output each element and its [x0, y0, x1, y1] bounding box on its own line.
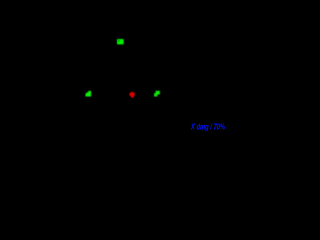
- green sprite left: [86, 91, 92, 97]
- green sprite right: [154, 91, 160, 97]
- red sprite center: [130, 92, 135, 98]
- svg-text:X dmg / 70%: X dmg / 70%: [190, 122, 225, 131]
- green block top center: [117, 39, 124, 44]
